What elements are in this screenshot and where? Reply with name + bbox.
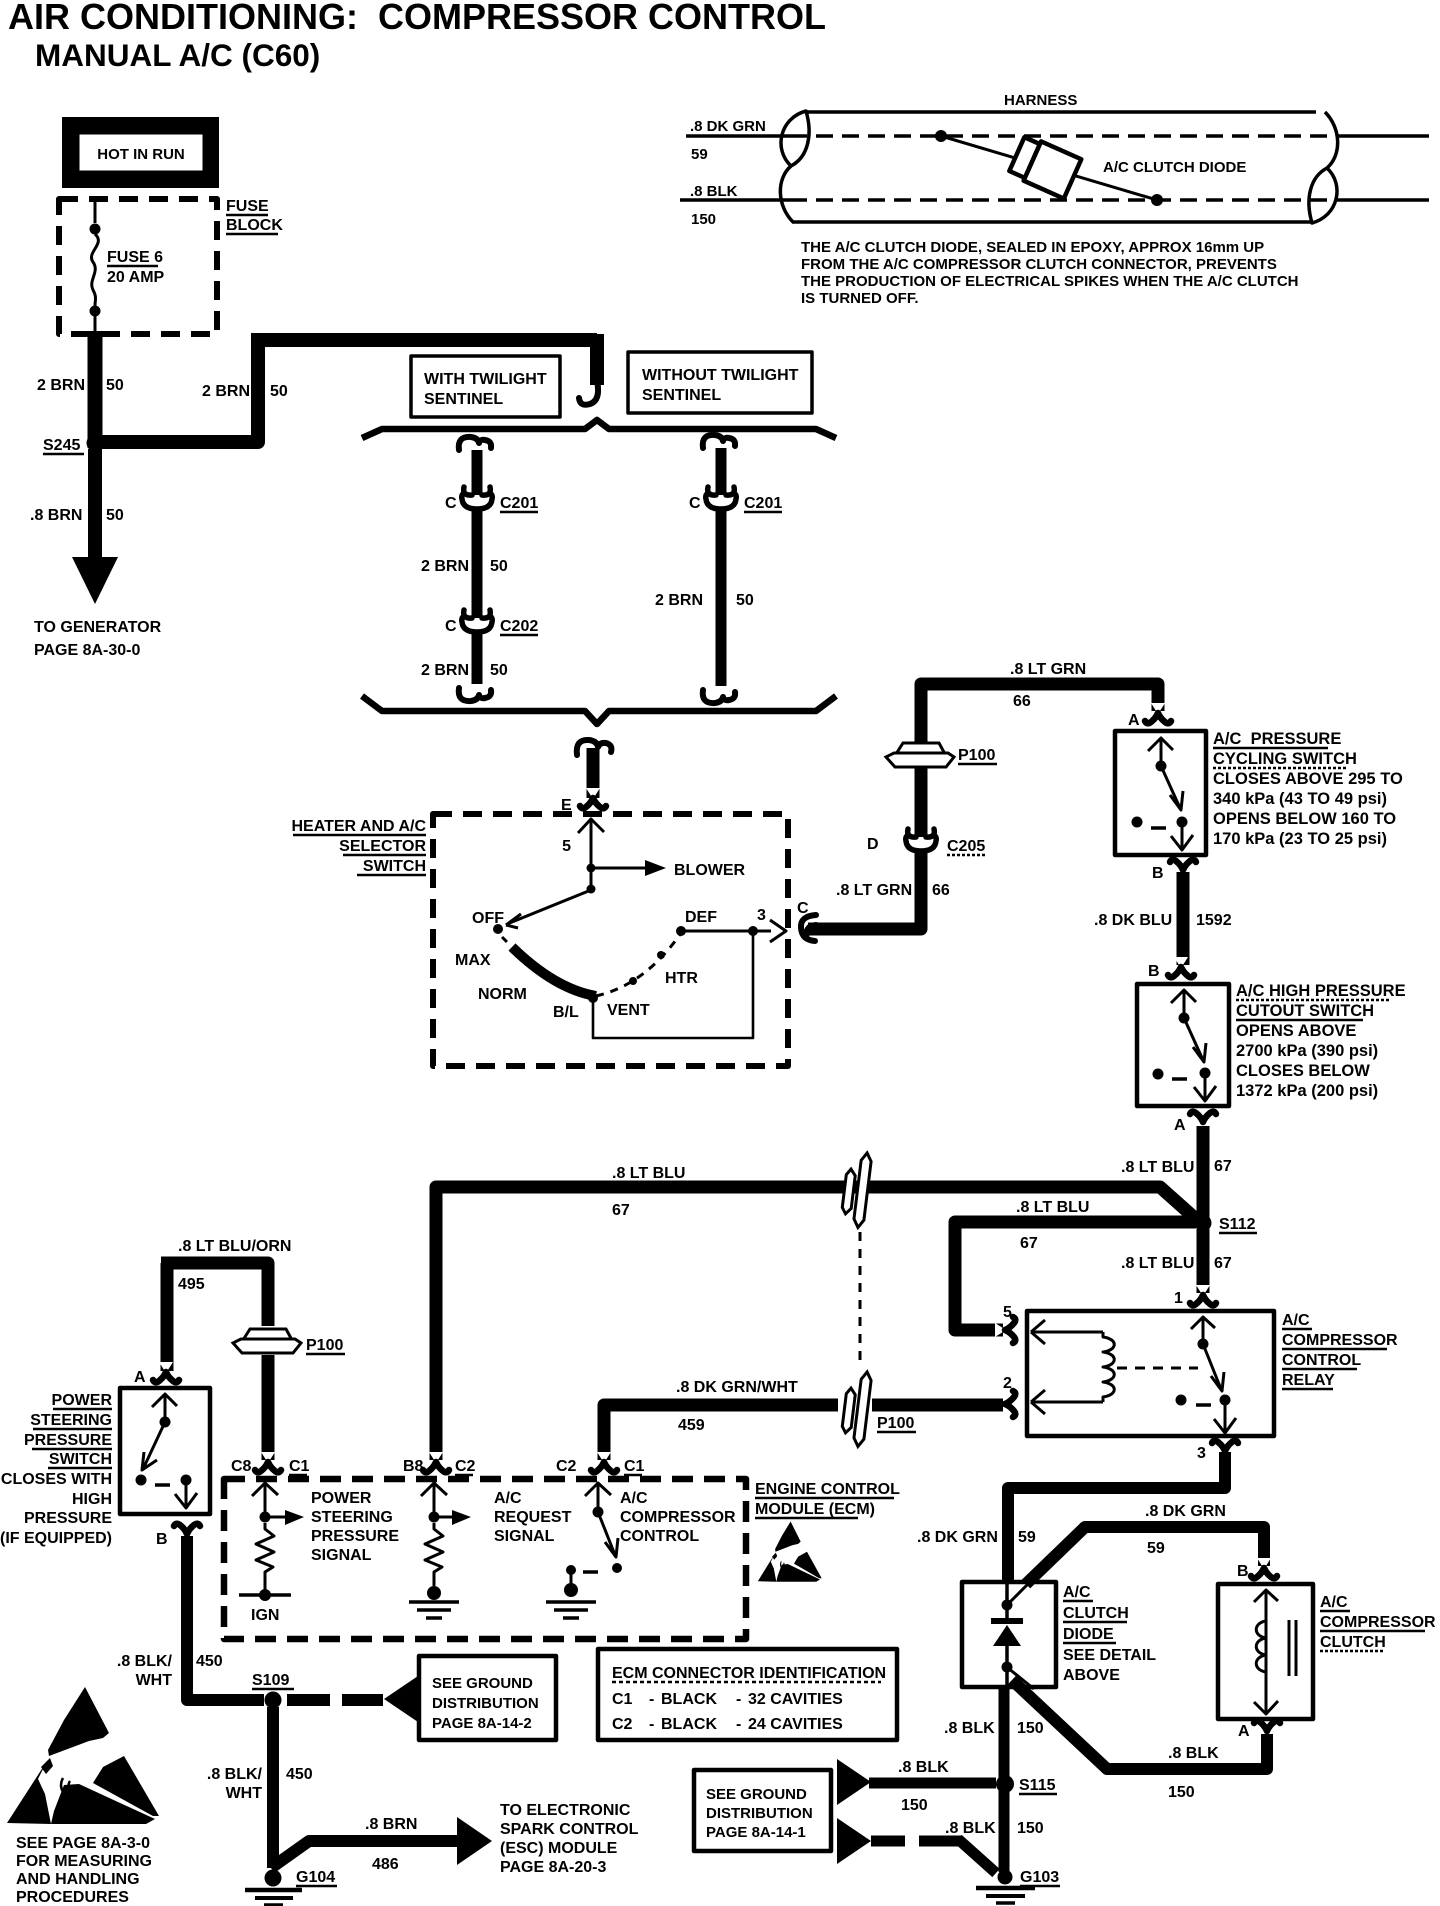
- wire branch to compressor clutch B: [1026, 1527, 1264, 1584]
- A/C pressure cycling switch box: [1115, 731, 1206, 855]
- svg-text:STEERING: STEERING: [311, 1509, 393, 1526]
- svg-text:TO ELECTRONIC: TO ELECTRONIC: [500, 1802, 631, 1819]
- svg-text:50: 50: [106, 377, 124, 394]
- ECM pin B8 input: [421, 1483, 447, 1516]
- svg-text:(IF EQUIPPED): (IF EQUIPPED): [0, 1530, 112, 1547]
- svg-text:BLOCK: BLOCK: [226, 217, 283, 234]
- see ground distribution 8A-14-2 box: [419, 1656, 556, 1740]
- harness tube top: [806, 110, 1316, 114]
- svg-text:WITHOUT TWILIGHT: WITHOUT TWILIGHT: [642, 367, 799, 384]
- svg-text:DEF: DEF: [685, 909, 717, 926]
- long wire .8 LT BLU from ECM B8 to S112: [436, 1187, 1197, 1460]
- wire relay 3 to clutch diode: [1008, 1452, 1225, 1581]
- svg-text:C: C: [445, 495, 457, 512]
- svg-text:PAGE 8A-30-0: PAGE 8A-30-0: [34, 642, 141, 659]
- svg-text:50: 50: [490, 662, 508, 679]
- B/L contact: [588, 993, 598, 1003]
- svg-text:67: 67: [1020, 1235, 1038, 1252]
- terminal B flare ps switch: [174, 1524, 200, 1544]
- svg-text:.8 DK GRN/WHT: .8 DK GRN/WHT: [676, 1379, 798, 1396]
- svg-text:A: A: [1238, 1723, 1250, 1740]
- svg-text:SELECTOR: SELECTOR: [339, 838, 426, 855]
- svg-text:WHT: WHT: [226, 1785, 263, 1802]
- svg-text:SEE GROUND: SEE GROUND: [706, 1786, 807, 1803]
- left branch male hook bottom: [459, 688, 491, 701]
- fuse block dashed box: [59, 199, 217, 334]
- terminal B flare below cycling switch: [1170, 860, 1196, 880]
- svg-text:P100: P100: [958, 747, 995, 764]
- right branch male hook top: [703, 435, 735, 448]
- svg-text:B: B: [156, 1531, 168, 1548]
- svg-text:FUSE: FUSE: [226, 198, 269, 215]
- svg-text:CLOSES WITH: CLOSES WITH: [1, 1471, 112, 1488]
- svg-text:HOT IN RUN: HOT IN RUN: [97, 146, 185, 163]
- svg-text:.8 DK GRN: .8 DK GRN: [1145, 1503, 1226, 1520]
- svg-text:450: 450: [196, 1653, 223, 1670]
- A/C clutch diode package: [1008, 134, 1081, 198]
- svg-text:150: 150: [691, 211, 716, 228]
- svg-text:IGN: IGN: [251, 1607, 279, 1624]
- svg-text:C1: C1: [612, 1691, 633, 1708]
- svg-text:(ESC) MODULE: (ESC) MODULE: [500, 1840, 618, 1857]
- svg-text:C205: C205: [947, 838, 985, 855]
- ground symbol G103: [976, 1886, 1035, 1891]
- node S245: [87, 435, 104, 452]
- DEF to output line: [681, 920, 786, 942]
- svg-text:B: B: [1237, 1563, 1249, 1580]
- pin 5 lead with up arrow: [578, 818, 604, 887]
- svg-text:C: C: [689, 495, 701, 512]
- svg-text:CLUTCH: CLUTCH: [1063, 1605, 1129, 1622]
- svg-text:CUTOUT SWITCH: CUTOUT SWITCH: [1236, 1002, 1374, 1020]
- terminal E flare: [580, 788, 606, 808]
- wiper pivot node: [587, 885, 596, 894]
- svg-text:CLOSES BELOW: CLOSES BELOW: [1236, 1062, 1370, 1080]
- svg-text:170 kPa (23 TO 25 psi): 170 kPa (23 TO 25 psi): [1213, 830, 1387, 848]
- svg-text:CONTROL: CONTROL: [620, 1528, 699, 1545]
- svg-text:P100: P100: [306, 1337, 343, 1354]
- node G103: [998, 1870, 1013, 1885]
- svg-text:50: 50: [490, 558, 508, 575]
- ECM dashed box: [224, 1479, 746, 1639]
- male hook end of feed stub: [579, 381, 598, 405]
- wire .8 BLK dashed in harness: [790, 198, 1336, 202]
- svg-text:150: 150: [901, 1797, 928, 1814]
- connector C201 right pair: [706, 487, 737, 509]
- wire S112 down to relay pin 1: [1197, 1229, 1210, 1293]
- svg-text:A: A: [1174, 1117, 1186, 1134]
- svg-text:C201: C201: [744, 495, 782, 512]
- left branch wire upper: [472, 450, 483, 495]
- diode leads: [941, 136, 1157, 200]
- svg-text:REQUEST: REQUEST: [494, 1509, 572, 1526]
- svg-text:59: 59: [691, 146, 708, 163]
- grommet P100: [886, 743, 954, 767]
- svg-text:2 BRN: 2 BRN: [202, 383, 250, 400]
- svg-text:THE PRODUCTION OF ELECTRICAL S: THE PRODUCTION OF ELECTRICAL SPIKES WHEN…: [801, 273, 1299, 290]
- svg-text:.8 DK BLU: .8 DK BLU: [1094, 912, 1172, 929]
- terminal 1 flare: [1190, 1285, 1216, 1305]
- dashed link OFF to wiper arc: [502, 937, 510, 945]
- svg-text:340 kPa (43 TO 49 psi): 340 kPa (43 TO 49 psi): [1213, 790, 1387, 808]
- without twilight sentinel box: [628, 352, 812, 413]
- IGN node: [259, 1589, 271, 1601]
- svg-text:POWER: POWER: [52, 1392, 113, 1409]
- wire cutout A down to S112: [1197, 1126, 1210, 1218]
- wire .8 BLK 150 solid lead: [680, 198, 790, 202]
- svg-text:OFF: OFF: [472, 910, 504, 927]
- svg-text:C201: C201: [500, 495, 538, 512]
- svg-text:1372 kPa (200 psi): 1372 kPa (200 psi): [1236, 1082, 1378, 1100]
- node S109: [265, 1692, 282, 1709]
- svg-text:C8: C8: [231, 1458, 252, 1475]
- svg-text:.8 LT BLU: .8 LT BLU: [612, 1165, 685, 1182]
- svg-text:.8 BLK: .8 BLK: [944, 1720, 995, 1737]
- svg-text:.8 BRN: .8 BRN: [30, 507, 82, 524]
- svg-text:.8 LT BLU: .8 LT BLU: [1016, 1199, 1089, 1216]
- terminal A flare ps switch: [153, 1362, 179, 1382]
- svg-text:COMPRESSOR: COMPRESSOR: [620, 1509, 736, 1526]
- page triangle to G103: [837, 1818, 871, 1864]
- arrow to generator: [72, 557, 118, 604]
- terminal B flare of cutout switch: [1168, 957, 1194, 977]
- svg-text:PROCEDURES: PROCEDURES: [16, 1889, 129, 1906]
- svg-text:.8 LT BLU/ORN: .8 LT BLU/ORN: [178, 1238, 291, 1255]
- svg-text:STEERING: STEERING: [30, 1412, 112, 1429]
- svg-text:PAGE 8A-20-3: PAGE 8A-20-3: [500, 1859, 607, 1876]
- svg-text:50: 50: [270, 383, 288, 400]
- HTR contact dot: [657, 951, 665, 959]
- svg-text:IS TURNED OFF.: IS TURNED OFF.: [801, 290, 919, 307]
- svg-text:BLACK: BLACK: [661, 1691, 717, 1708]
- svg-text:VENT: VENT: [607, 1002, 650, 1019]
- svg-text:RELAY: RELAY: [1282, 1372, 1335, 1389]
- rotary wiper thick arc: [512, 947, 596, 996]
- link DEF line down to B/L contact: [593, 931, 753, 1038]
- wire grommet to ECM C8: [262, 1355, 275, 1460]
- svg-text:-: -: [649, 1716, 654, 1733]
- terminal 5 flare: [995, 1317, 1015, 1343]
- svg-text:C2: C2: [556, 1458, 577, 1475]
- bottom brace: [362, 696, 836, 724]
- svg-text:450: 450: [286, 1766, 313, 1783]
- terminal 3 flare below relay: [1212, 1441, 1238, 1461]
- clutch coil: [1254, 1590, 1278, 1714]
- svg-text:66: 66: [932, 882, 950, 899]
- svg-text:HEATER AND A/C: HEATER AND A/C: [291, 818, 426, 835]
- svg-text:SIGNAL: SIGNAL: [494, 1528, 555, 1545]
- svg-text:POWER: POWER: [311, 1490, 372, 1507]
- wire .8 DK GRN dashed in harness: [790, 134, 1336, 138]
- svg-text:C: C: [797, 900, 809, 917]
- diode tap node lower: [1151, 194, 1163, 206]
- esd symbol small: [758, 1521, 822, 1581]
- wire S115 to ground dist triangle: [869, 1778, 996, 1789]
- svg-text:66: 66: [1013, 693, 1031, 710]
- svg-text:-: -: [736, 1691, 741, 1708]
- with twilight sentinel box: [411, 356, 560, 417]
- svg-text:COMPRESSOR: COMPRESSOR: [1282, 1332, 1398, 1349]
- terminal A flare of cycling switch: [1145, 703, 1171, 723]
- svg-text:-: -: [649, 1691, 654, 1708]
- svg-text:A/C: A/C: [494, 1490, 522, 1507]
- svg-text:S245: S245: [43, 437, 80, 454]
- diode internal leads: [1005, 1584, 1009, 1685]
- svg-text:.8 BLK: .8 BLK: [690, 183, 738, 200]
- svg-text:HARNESS: HARNESS: [1004, 92, 1077, 109]
- svg-text:A/C: A/C: [620, 1490, 648, 1507]
- svg-text:SEE GROUND: SEE GROUND: [432, 1675, 533, 1692]
- svg-text:2 BRN: 2 BRN: [37, 377, 85, 394]
- svg-text:ENGINE CONTROL: ENGINE CONTROL: [755, 1481, 900, 1498]
- svg-text:DISTRIBUTION: DISTRIBUTION: [706, 1805, 813, 1822]
- svg-text:3: 3: [1197, 1445, 1206, 1462]
- svg-text:A/C HIGH PRESSURE: A/C HIGH PRESSURE: [1236, 982, 1406, 1000]
- wire .8 LT BLU/ORN loop: [161, 1263, 268, 1371]
- wire .8 DK GRN/WHT to ECM C2: [604, 1405, 838, 1460]
- wire S245 branch right and up to twilight feed: [95, 340, 597, 442]
- svg-text:5: 5: [1003, 1304, 1012, 1321]
- wire cycling B to cutout B: [1177, 872, 1190, 965]
- svg-text:C202: C202: [500, 618, 538, 635]
- svg-text:.8 BLK: .8 BLK: [1168, 1745, 1219, 1762]
- terminal 2 flare: [995, 1391, 1015, 1417]
- wire G104 to ESC module: [271, 1841, 458, 1868]
- svg-text:SEE DETAIL: SEE DETAIL: [1063, 1647, 1156, 1664]
- wire S109 down to G104: [267, 1707, 279, 1868]
- see ground distribution 8A-14-1 box: [694, 1770, 831, 1851]
- svg-text:2 BRN: 2 BRN: [421, 662, 469, 679]
- harness tube right opening: [1309, 168, 1337, 223]
- svg-text:.8 DK GRN: .8 DK GRN: [690, 118, 766, 135]
- svg-text:150: 150: [1168, 1784, 1195, 1801]
- harness tube left opening: [781, 111, 809, 166]
- svg-text:.8 LT BLU: .8 LT BLU: [1121, 1159, 1194, 1176]
- svg-text:DIODE: DIODE: [1063, 1626, 1114, 1643]
- svg-text:PRESSURE: PRESSURE: [24, 1432, 112, 1449]
- svg-text:459: 459: [678, 1417, 705, 1434]
- svg-text:67: 67: [612, 1202, 630, 1219]
- svg-text:CYCLING SWITCH: CYCLING SWITCH: [1213, 750, 1357, 768]
- svg-text:150: 150: [1017, 1820, 1044, 1837]
- HOT IN RUN box: [62, 117, 219, 188]
- fuse 6 element: [94, 202, 97, 223]
- grommet P100 ps: [233, 1329, 301, 1353]
- svg-text:50: 50: [106, 507, 124, 524]
- svg-text:A/C: A/C: [1282, 1312, 1310, 1329]
- svg-text:ECM CONNECTOR IDENTIFICATION: ECM CONNECTOR IDENTIFICATION: [612, 1665, 886, 1682]
- relay switch: [1191, 1316, 1215, 1341]
- svg-text:MAX: MAX: [455, 952, 491, 969]
- svg-text:BLACK: BLACK: [661, 1716, 717, 1733]
- relay coil-switch dashed link: [1117, 1367, 1198, 1370]
- svg-text:2 BRN: 2 BRN: [421, 558, 469, 575]
- svg-text:FOR MEASURING: FOR MEASURING: [16, 1853, 152, 1870]
- node G104: [265, 1870, 282, 1887]
- svg-text:.8 DK GRN: .8 DK GRN: [917, 1529, 998, 1546]
- VENT contact dot: [629, 977, 637, 985]
- svg-text:S112: S112: [1219, 1216, 1256, 1233]
- wire ps B down to S109: [187, 1536, 264, 1700]
- selector feed male hook: [577, 740, 612, 755]
- connector C205 pair: [906, 829, 937, 851]
- svg-text:P100: P100: [877, 1415, 914, 1432]
- svg-text:2700 kPa (390 psi): 2700 kPa (390 psi): [1236, 1042, 1378, 1060]
- power steering pressure switch box: [120, 1388, 210, 1514]
- svg-text:OPENS BELOW 160 TO: OPENS BELOW 160 TO: [1213, 810, 1396, 828]
- svg-text:B: B: [1152, 865, 1164, 882]
- svg-text:C: C: [445, 618, 457, 635]
- svg-text:FROM THE A/C COMPRESSOR CLUTCH: FROM THE A/C COMPRESSOR CLUTCH CONNECTOR…: [801, 256, 1277, 273]
- wire S245 down to generator: [88, 449, 102, 558]
- svg-text:1: 1: [1174, 1290, 1183, 1307]
- dashed wire to G103: [871, 1839, 996, 1873]
- ECM ground req: [427, 1586, 441, 1600]
- svg-text:.8 BLK: .8 BLK: [945, 1820, 996, 1837]
- svg-text:BLOWER: BLOWER: [674, 862, 746, 879]
- cycling switch internal contacts: [1148, 738, 1173, 765]
- right branch wire upper: [716, 448, 727, 495]
- svg-text:A: A: [134, 1369, 146, 1386]
- inline connector upper half P100: [840, 1151, 872, 1228]
- svg-text:C1: C1: [624, 1458, 645, 1475]
- svg-text:PRESSURE: PRESSURE: [311, 1528, 399, 1545]
- svg-text:SIGNAL: SIGNAL: [311, 1547, 372, 1564]
- terminal C2 flare: [591, 1452, 617, 1472]
- svg-text:.8 BLK: .8 BLK: [898, 1759, 949, 1776]
- terminal A flare clutch: [1254, 1721, 1280, 1741]
- ECM connector identification box: [598, 1649, 897, 1740]
- svg-text:1592: 1592: [1196, 912, 1232, 929]
- svg-text:B: B: [1148, 963, 1160, 980]
- svg-text:A/C CLUTCH DIODE: A/C CLUTCH DIODE: [1103, 159, 1246, 176]
- svg-text:B/L: B/L: [553, 1004, 579, 1021]
- svg-text:SEE PAGE 8A-3-0: SEE PAGE 8A-3-0: [16, 1835, 150, 1852]
- svg-text:SENTINEL: SENTINEL: [642, 387, 721, 404]
- svg-text:SPARK CONTROL: SPARK CONTROL: [500, 1821, 639, 1838]
- svg-text:PAGE 8A-14-1: PAGE 8A-14-1: [706, 1824, 806, 1841]
- svg-text:C1: C1: [289, 1458, 310, 1475]
- inline connector lower half P100: [840, 1370, 872, 1447]
- DEF contact: [676, 926, 686, 936]
- A/C high pressure cutout switch box: [1137, 984, 1229, 1106]
- svg-text:C2: C2: [455, 1458, 476, 1475]
- wire clutch A to S115: [1012, 1680, 1267, 1769]
- ECM pin C8 input: [252, 1483, 278, 1516]
- ECM resistor req: [425, 1523, 443, 1586]
- svg-text:.8 BLK/: .8 BLK/: [207, 1766, 263, 1783]
- svg-text:G103: G103: [1020, 1869, 1059, 1886]
- terminal A flare below cutout switch: [1190, 1112, 1216, 1132]
- A/C compressor clutch box: [1218, 1584, 1313, 1719]
- svg-text:WITH TWILIGHT: WITH TWILIGHT: [424, 371, 547, 388]
- svg-text:A/C: A/C: [1063, 1584, 1091, 1601]
- connector C201 left pair: [462, 487, 493, 509]
- node S115: [996, 1775, 1014, 1793]
- left branch wire lower: [472, 631, 483, 684]
- svg-text:THE A/C CLUTCH DIODE, SEALED I: THE A/C CLUTCH DIODE, SEALED IN EPOXY, A…: [801, 239, 1264, 256]
- A/C clutch diode box: [962, 1582, 1056, 1687]
- svg-text:S115: S115: [1019, 1777, 1056, 1794]
- svg-text:SWITCH: SWITCH: [363, 858, 426, 875]
- svg-text:OPENS ABOVE: OPENS ABOVE: [1236, 1022, 1356, 1040]
- OFF contact: [493, 924, 503, 934]
- page triangle to S115: [837, 1759, 871, 1805]
- dashed wire S109 to triangle: [287, 1694, 383, 1706]
- blower feed arrow: [591, 867, 646, 870]
- dashed arc B/L VENT HTR to DEF: [596, 933, 681, 996]
- terminal B flare clutch: [1251, 1558, 1277, 1578]
- left branch wire middle: [472, 508, 483, 618]
- svg-text:G104: G104: [296, 1869, 335, 1886]
- svg-text:-: -: [736, 1716, 741, 1733]
- svg-text:.8 LT GRN: .8 LT GRN: [836, 882, 912, 899]
- svg-text:WHT: WHT: [136, 1672, 173, 1689]
- svg-text:3: 3: [757, 907, 766, 924]
- svg-text:495: 495: [178, 1276, 205, 1293]
- right branch male hook bottom: [703, 690, 735, 703]
- wire selector C up to cycling switch A: [808, 850, 921, 929]
- svg-text:59: 59: [1147, 1540, 1165, 1557]
- top brace: [362, 420, 836, 438]
- node S112: [1195, 1215, 1212, 1232]
- terminal C8 flare: [255, 1452, 281, 1472]
- svg-text:CLOSES ABOVE 295 TO: CLOSES ABOVE 295 TO: [1213, 770, 1403, 788]
- svg-text:2: 2: [1003, 1375, 1012, 1392]
- wiper arm to OFF: [506, 890, 591, 928]
- svg-text:HTR: HTR: [665, 970, 698, 987]
- svg-text:FUSE 6: FUSE 6: [107, 249, 163, 266]
- svg-text:SENTINEL: SENTINEL: [424, 391, 503, 408]
- svg-text:HIGH: HIGH: [72, 1491, 112, 1508]
- ground symbol G104: [245, 1888, 302, 1893]
- wire .8 DK GRN 59 solid lead: [686, 134, 790, 138]
- A/C compressor control relay box: [1027, 1311, 1274, 1436]
- svg-text:.8 BLK/: .8 BLK/: [117, 1653, 173, 1670]
- junction node on DEF line: [748, 926, 758, 936]
- heater and A/C selector switch dashed box: [433, 814, 788, 1066]
- svg-text:MODULE (ECM): MODULE (ECM): [755, 1501, 875, 1518]
- svg-text:150: 150: [1017, 1720, 1044, 1737]
- svg-text:A/C: A/C: [1320, 1594, 1348, 1611]
- svg-text:50: 50: [736, 592, 754, 609]
- svg-text:2 BRN: 2 BRN: [655, 592, 703, 609]
- svg-text:D: D: [867, 836, 879, 853]
- svg-text:A/C PRESSURE: A/C PRESSURE: [1213, 730, 1341, 748]
- connector C202 pair: [462, 610, 493, 632]
- svg-text:S109: S109: [252, 1672, 289, 1689]
- harness tube bottom: [792, 220, 1312, 224]
- selector feed wire: [587, 748, 600, 798]
- terminal C male hook at box edge: [801, 915, 816, 941]
- ECM resistor ps: [256, 1523, 274, 1590]
- svg-text:B8: B8: [403, 1458, 424, 1475]
- svg-text:24 CAVITIES: 24 CAVITIES: [748, 1716, 843, 1733]
- svg-text:TO GENERATOR: TO GENERATOR: [34, 619, 162, 636]
- cutout switch internal contacts: [1171, 990, 1196, 1017]
- page triangle to 8A-14-2: [384, 1676, 418, 1722]
- svg-text:20 AMP: 20 AMP: [107, 269, 165, 286]
- svg-text:486: 486: [372, 1856, 399, 1873]
- svg-text:MANUAL A/C (C60): MANUAL A/C (C60): [35, 37, 320, 73]
- svg-text:67: 67: [1214, 1158, 1232, 1175]
- svg-text:.8 LT GRN: .8 LT GRN: [1010, 661, 1086, 678]
- svg-text:CONTROL: CONTROL: [1282, 1352, 1361, 1369]
- page triangle to ESC: [457, 1817, 492, 1865]
- svg-text:5: 5: [562, 838, 571, 855]
- svg-text:.8 LT BLU: .8 LT BLU: [1121, 1255, 1194, 1272]
- relay coil: [1031, 1320, 1103, 1344]
